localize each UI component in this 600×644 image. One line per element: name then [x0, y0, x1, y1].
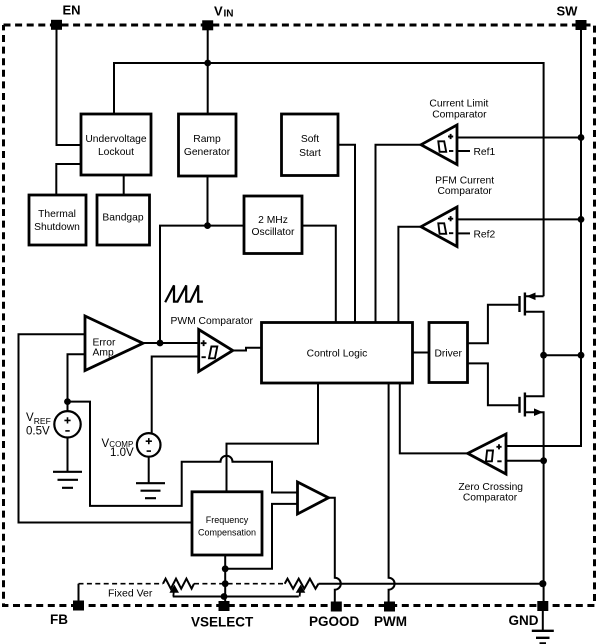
wire PGOOD comparator - input to divider node	[225, 504, 297, 569]
node ZC minus junction	[540, 457, 547, 464]
wire FB feedback to Error Amp and Frequency Compensation	[19, 334, 193, 522]
wire VCOMP to ground	[148, 457, 150, 483]
box Thermal Shutdown	[29, 195, 86, 245]
wire divider dashed segment 1	[79, 583, 164, 585]
wire SW node link	[544, 354, 581, 356]
svg-text:Shutdown: Shutdown	[34, 222, 80, 233]
wire PFM Comparator + input to SW	[457, 218, 581, 220]
svg-text:V: V	[214, 4, 223, 19]
svg-text:Ref1: Ref1	[474, 147, 496, 158]
wire Control Logic to Driver	[413, 352, 430, 354]
wire PFM Comparator output to Control Logic	[398, 227, 421, 322]
svg-text:PFM Current: PFM Current	[435, 175, 494, 186]
wire Driver to PMOS gate	[468, 305, 519, 344]
ground VCOMP ground	[136, 483, 165, 498]
wire PGOOD comparator output to PGOOD pin (with hop)	[329, 498, 341, 602]
wire Current Limit Comparator + input to SW	[457, 137, 581, 139]
svg-text:Lockout: Lockout	[98, 147, 134, 158]
wire EN pin to UVLO	[57, 29, 82, 145]
wire VIN pin down to Ramp Generator	[207, 30, 209, 114]
node ramp/osc junction	[204, 222, 211, 229]
svg-text:Oscillator: Oscillator	[252, 227, 295, 238]
node divider mid junction	[222, 580, 229, 587]
transistor Q2 NMOS low-side	[520, 355, 544, 601]
svg-text:Fixed Ver: Fixed Ver	[108, 588, 153, 600]
pin PWM	[374, 602, 407, 630]
svg-text:Zero Crossing: Zero Crossing	[458, 482, 523, 493]
box Undervoltage Lockout	[81, 114, 151, 175]
node wiper junction	[221, 593, 228, 600]
svg-text:Comparator: Comparator	[432, 110, 487, 121]
wire Zero Crossing - input	[506, 460, 544, 462]
wire divider dashed segment 2	[194, 583, 285, 585]
svg-text:Driver: Driver	[434, 349, 462, 360]
pin SW	[557, 4, 587, 31]
wire VREF node loop to PGOOD comparator + input (with hop)	[68, 402, 298, 506]
wire divider solid segment to GND	[319, 583, 543, 585]
pin VSELECT	[191, 601, 254, 630]
wire VIN rail	[114, 63, 544, 296]
svg-text:IN: IN	[224, 9, 234, 20]
waveform sawtooth	[165, 285, 203, 302]
box Control Logic	[262, 323, 413, 384]
wire wiper bus	[173, 596, 299, 598]
node SW left junction	[540, 352, 547, 359]
wire SW pin down to Zero Crossing + input	[506, 30, 581, 446]
wire Control Logic to PWM pin (with hop)	[389, 383, 395, 602]
svg-text:Control Logic: Control Logic	[307, 349, 368, 360]
wire Ref2 stub	[457, 232, 470, 234]
wire oscillator right to Control Logic	[302, 226, 336, 322]
node VIN junction	[204, 60, 211, 67]
wire FB pin up to divider	[78, 584, 80, 601]
pin VIN	[202, 4, 233, 31]
svg-text:Undervoltage: Undervoltage	[85, 134, 147, 145]
wire Driver to NMOS gate	[468, 363, 519, 405]
wire Error Amp - input to VREF	[68, 354, 86, 411]
comparator PWM Comparator	[171, 316, 254, 372]
svg-text:Comparator: Comparator	[438, 186, 493, 197]
wire Zero Crossing output to Control Logic	[400, 383, 468, 453]
ground VREF ground	[53, 472, 82, 488]
wire UVLO to Bandgap	[123, 175, 125, 195]
pin PGOOD	[309, 602, 360, 630]
svg-text:PGOOD: PGOOD	[309, 614, 360, 629]
wire Error Amp output to PWM comparator	[143, 342, 199, 344]
pin GND	[509, 601, 549, 628]
svg-text:REF: REF	[34, 416, 51, 426]
box Bandgap	[97, 195, 150, 245]
resistor R2 variable	[285, 579, 319, 597]
comparator PFM Current Comparator	[421, 175, 496, 246]
box Ramp Generator	[179, 114, 237, 176]
node FC divider junction	[222, 565, 229, 572]
voltage source VCOMP 1.0V	[102, 433, 161, 459]
svg-text:Amp: Amp	[93, 348, 114, 359]
svg-text:Soft: Soft	[301, 134, 319, 145]
wire Current Limit Comparator output to Control Logic	[376, 145, 422, 322]
voltage source VREF 0.5V	[26, 411, 81, 437]
svg-text:GND: GND	[509, 613, 539, 628]
svg-text:FB: FB	[50, 612, 68, 627]
wire Frequency Compensation to VSELECT pin	[224, 555, 226, 601]
wire Ramp Generator down	[207, 176, 209, 226]
svg-text:2 MHz: 2 MHz	[258, 215, 288, 226]
box Frequency Compensation	[192, 492, 262, 555]
node SW PFM junction	[578, 216, 585, 223]
wire Control Logic to Frequency Compensation	[227, 383, 319, 492]
pin EN	[51, 3, 81, 30]
comparator Current Limit Comparator	[421, 98, 496, 164]
svg-text:V: V	[26, 412, 34, 424]
pin FB	[50, 601, 84, 628]
wire UVLO to Thermal Shutdown	[56, 164, 81, 195]
svg-text:V: V	[102, 438, 110, 450]
svg-text:EN: EN	[63, 3, 81, 18]
wire VREF to ground	[67, 438, 69, 472]
comparator PGOOD buffer	[298, 482, 329, 514]
svg-text:Start: Start	[299, 148, 321, 159]
svg-text:SW: SW	[557, 4, 579, 19]
svg-text:0.5V: 0.5V	[26, 426, 50, 438]
svg-text:Ramp: Ramp	[193, 134, 221, 145]
svg-text:VSELECT: VSELECT	[191, 615, 254, 630]
node VREF junction	[64, 398, 71, 405]
wire PWM comparator - input to VCOMP	[152, 357, 199, 434]
transistor Q1 PMOS high-side	[520, 293, 544, 356]
svg-text:Frequency: Frequency	[206, 515, 249, 525]
box 2 MHz Oscillator	[244, 196, 302, 254]
svg-text:Comparator: Comparator	[463, 493, 518, 504]
box Driver	[429, 323, 468, 383]
svg-text:Compensation: Compensation	[198, 528, 256, 538]
svg-text:Generator: Generator	[184, 147, 231, 158]
op-amp Error Amp	[85, 316, 143, 371]
ground external GND	[532, 631, 554, 644]
box Soft Start	[282, 114, 339, 176]
node error amp output junction	[157, 340, 164, 347]
svg-text:PWM Comparator: PWM Comparator	[171, 316, 254, 327]
node SW CL junction	[578, 134, 585, 141]
node divider GND junction	[539, 580, 546, 587]
wire PWM comparator output to Control Logic	[233, 348, 262, 351]
svg-text:Current Limit: Current Limit	[429, 98, 488, 109]
wire GND pin to external ground	[542, 606, 544, 631]
svg-text:PWM: PWM	[374, 614, 407, 629]
wire Ref1 stub	[457, 150, 470, 152]
node SW right junction	[578, 352, 585, 359]
resistor R1 variable	[163, 579, 194, 597]
comparator Zero Crossing Comparator	[458, 434, 523, 504]
svg-text:Thermal: Thermal	[38, 209, 76, 220]
svg-text:Bandgap: Bandgap	[102, 213, 144, 224]
svg-text:Ref2: Ref2	[474, 230, 496, 241]
wire Soft Start to Control Logic	[338, 145, 355, 322]
svg-text:1.0V: 1.0V	[110, 447, 134, 459]
wire oscillator left to PWM comparator input	[160, 226, 244, 343]
